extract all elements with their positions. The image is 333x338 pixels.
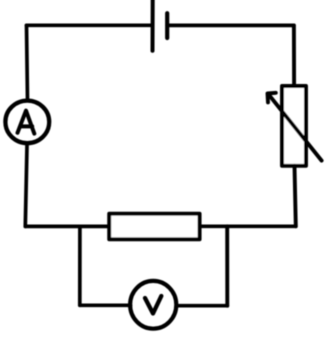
ammeter A1 label "A" <box>18 111 35 134</box>
wire voltmeter bottom-right <box>178 304 228 308</box>
wire left lower (ammeter down to bottom corner) <box>25 146 27 227</box>
wire voltmeter right drop <box>225 226 229 305</box>
wire top-right (battery to right corner) <box>167 24 294 28</box>
variable resistor RV1 arrow shaft <box>269 95 321 160</box>
wire bottom-left (corner to resistor) <box>25 225 108 229</box>
wire voltmeter left drop <box>78 226 82 305</box>
wire right upper (top corner down to rheostat) <box>292 25 296 86</box>
battery cell BT1 short plate <box>165 13 169 38</box>
wire right lower (rheostat down to bottom corner) <box>295 166 296 227</box>
variable resistor RV1 body <box>282 86 306 166</box>
wire top-left (left corner to battery) <box>27 23 153 27</box>
wire left upper (top corner down to ammeter) <box>27 25 28 100</box>
voltmeter V1 body <box>130 281 176 329</box>
ammeter A1 body <box>5 101 49 144</box>
battery cell BT1 long plate <box>151 0 155 51</box>
wire bottom-right (resistor to right corner) <box>200 224 296 228</box>
voltmeter V1 label "V" <box>145 296 161 314</box>
wire voltmeter bottom-left <box>80 303 131 307</box>
variable resistor RV1 arrowhead <box>268 93 276 103</box>
resistor R1 body <box>109 214 199 240</box>
